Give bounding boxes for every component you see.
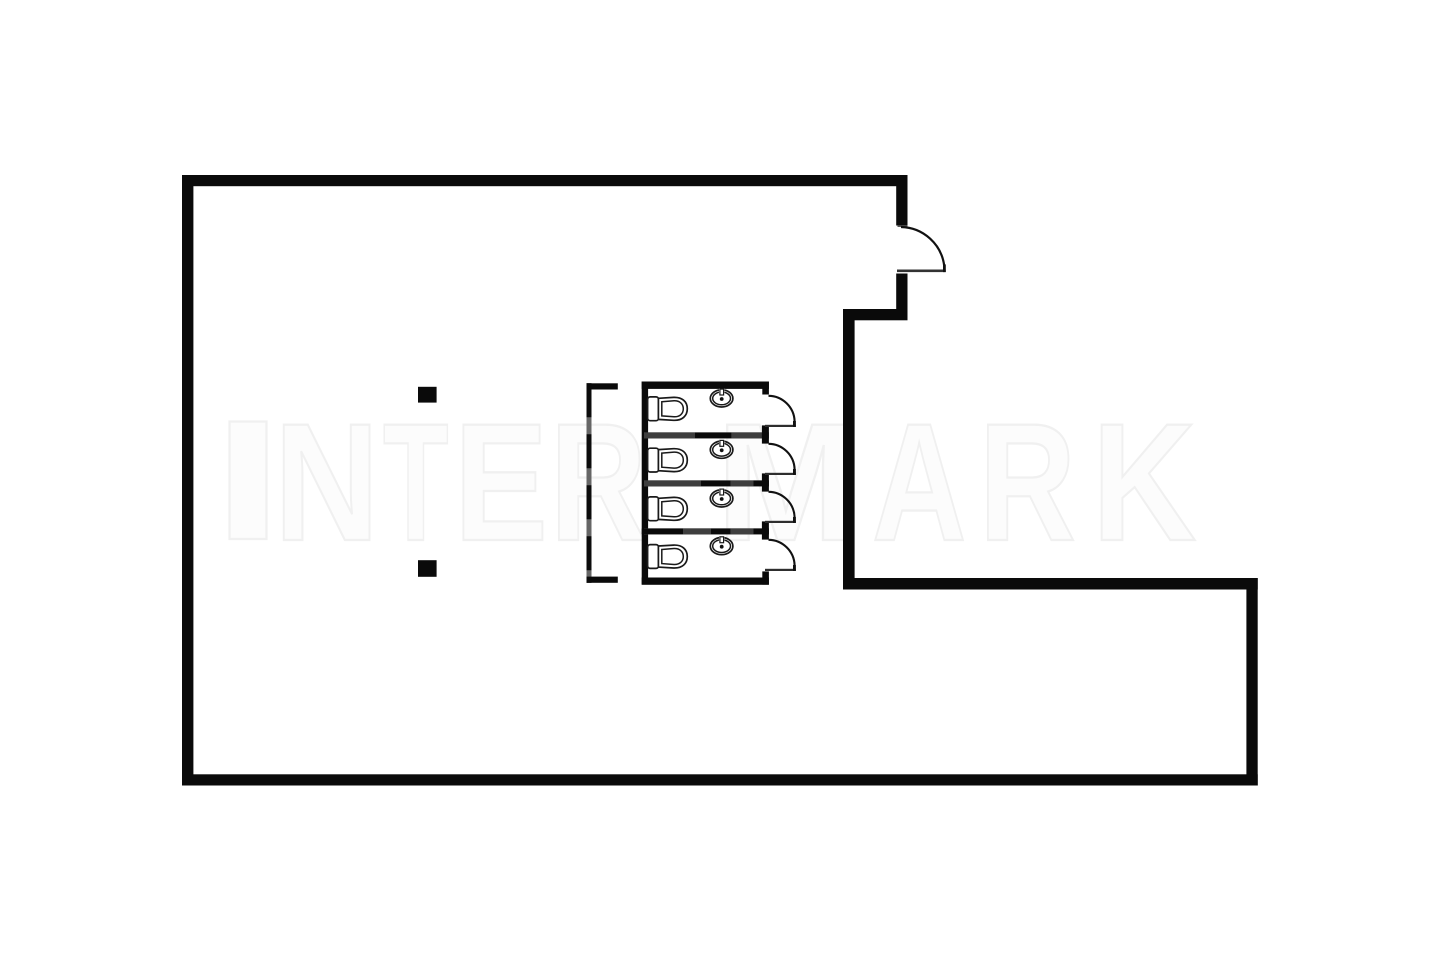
svg-text:R: R (550, 390, 647, 577)
svg-text:A: A (872, 388, 966, 575)
svg-text:T: T (383, 389, 449, 576)
svg-text:N: N (274, 390, 379, 577)
svg-text:R: R (979, 390, 1076, 577)
svg-text:K: K (1092, 390, 1196, 577)
svg-text:E: E (454, 388, 548, 575)
